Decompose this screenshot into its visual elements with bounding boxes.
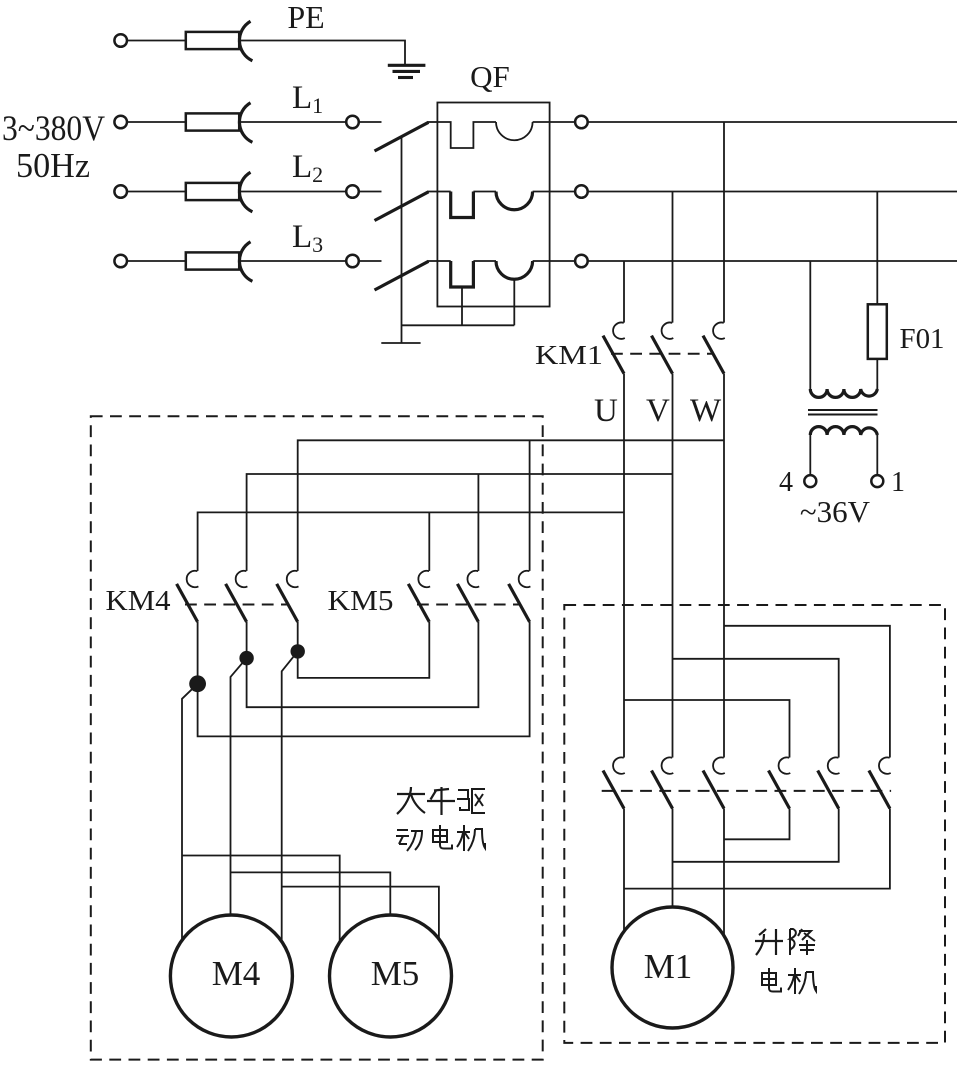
wire L3 to QF terminal <box>239 260 346 262</box>
circuit breaker QF box <box>437 103 549 307</box>
svg-text:1: 1 <box>891 467 905 498</box>
svg-text:3~380V: 3~380V <box>2 108 105 148</box>
label 大车驱 (travel drive) line1 <box>397 787 485 815</box>
QF pole2 thermal element <box>437 191 450 193</box>
wire PE terminal to fuse <box>127 40 186 42</box>
QF linkage vertical <box>401 136 403 343</box>
svg-text:M5: M5 <box>371 954 420 993</box>
dashed enclosure hoist box <box>564 605 945 1043</box>
svg-text:PE: PE <box>287 0 324 35</box>
contactor KM1 pole3 <box>703 322 725 373</box>
motor M5 <box>330 915 452 1037</box>
QF pole3 thermal element <box>437 260 450 262</box>
wire KM4 pole1 out to KM5 pole3 out <box>198 622 530 737</box>
connector arc PE <box>239 21 252 61</box>
wire M5 feed a <box>182 856 340 943</box>
wire KM4 pole2 out to KM5 pole2 out <box>247 622 479 707</box>
terminal QF out row3 <box>575 255 588 268</box>
svg-text:M4: M4 <box>212 954 261 993</box>
svg-text:QF: QF <box>470 59 510 94</box>
wire KM5 pole3 feed <box>529 440 531 571</box>
contactor KM1 pole1 <box>603 322 625 373</box>
wire L1 to fuse <box>127 121 186 123</box>
QF blade pole2 <box>375 192 429 221</box>
wire pole1 down to M1 <box>623 809 625 934</box>
wire motor feed b (from pole2 dot) <box>231 658 247 915</box>
svg-text:L3: L3 <box>292 219 323 257</box>
hoist contactor pole6 <box>869 757 891 808</box>
wire drop row2 to KM1 pole2 <box>672 192 674 323</box>
bus row2 <box>588 191 957 193</box>
svg-text:U: U <box>594 393 618 429</box>
svg-text:KM4: KM4 <box>106 585 172 617</box>
transformer T secondary winding <box>810 427 877 435</box>
wire QF to terminal row3 <box>550 260 576 262</box>
wire secondary right lead <box>876 435 878 475</box>
wire QF to terminal row2 <box>550 191 576 193</box>
terminal 1 <box>871 475 883 487</box>
KM1 linkage dashed <box>611 353 714 355</box>
svg-text:KM5: KM5 <box>328 585 394 617</box>
QF blade pole3 <box>375 261 429 290</box>
contactor KM5 pole1 <box>408 571 430 622</box>
ground earth symbol <box>388 65 426 77</box>
wire V vertical <box>672 374 674 758</box>
contactor KM1 pole2 <box>652 322 674 373</box>
contactor KM4 pole2 <box>226 571 248 622</box>
contactor KM5 pole2 <box>457 571 479 622</box>
wire drop row3 to KM1 pole1 <box>623 261 625 323</box>
QF operator T-bar <box>381 342 420 344</box>
wire QF to terminal row1 <box>550 121 576 123</box>
label 电机 (hoist) line2 <box>762 968 816 994</box>
bus row3 <box>588 260 957 262</box>
wire KM5 pole1 feed <box>428 512 430 571</box>
connector arc L1 <box>239 103 252 143</box>
wire motor feed c (from pole3 dot) <box>282 651 298 941</box>
wire U to hoist pole4 <box>624 700 790 758</box>
wire phase line A (W to KM4/KM5 row) <box>298 440 724 571</box>
terminal L1 QF-side <box>346 116 359 129</box>
wire phase line B (V to KM4/KM5 row) <box>247 474 673 571</box>
wire into QF pole2 <box>428 191 438 193</box>
connector arc L2 <box>239 172 252 212</box>
terminal L2 QF-side <box>346 185 359 198</box>
hoist contactor pole3 <box>703 757 725 808</box>
wire L2 to QF terminal <box>239 191 346 193</box>
wire M5 feed c <box>282 887 439 939</box>
wire L3 to fuse <box>127 260 186 262</box>
wire drop row2 to F01 <box>876 192 878 305</box>
junction dot KM4 pole1 <box>189 675 206 692</box>
motor M1 <box>612 907 733 1028</box>
terminal QF out row1 <box>575 116 588 129</box>
svg-text:L1: L1 <box>292 80 323 118</box>
wire W vertical <box>723 374 725 758</box>
hoist contactor pole5 <box>818 757 840 808</box>
wire L1 stub <box>359 121 382 123</box>
wire pole6 out to pole1 line <box>624 809 890 889</box>
wire L2 stub <box>359 191 382 193</box>
wire drop row1 to KM1 pole3 <box>723 122 725 323</box>
dashed enclosure M4/M5 drive box <box>91 416 543 1059</box>
wire V to hoist pole5 <box>673 659 839 758</box>
fuse FU-L1 <box>186 113 239 130</box>
motor M4 <box>170 915 292 1037</box>
hoist contactor pole4 <box>769 757 791 808</box>
QF trip link from pole3 notch <box>461 287 463 325</box>
wire L1 to QF terminal <box>239 121 346 123</box>
svg-text:L2: L2 <box>292 149 323 187</box>
svg-text:V: V <box>646 393 670 429</box>
wire into QF pole3 <box>428 260 438 262</box>
svg-text:W: W <box>690 393 722 429</box>
fuse FU-PE <box>186 32 239 49</box>
wire motor feed a (from pole1 dot) <box>182 684 198 941</box>
hoist contactor pole2 <box>652 757 674 808</box>
transformer core <box>808 410 878 415</box>
svg-text:50Hz: 50Hz <box>16 146 90 185</box>
wire L2 to fuse <box>127 191 186 193</box>
fuse FU-L3 <box>186 252 239 269</box>
terminal L3 input <box>114 255 127 268</box>
contactor KM5 pole3 <box>509 571 531 622</box>
QF pole1 thermal element <box>437 122 496 148</box>
fuse F01 <box>868 304 887 359</box>
wire F01 to transformer primary <box>876 359 878 389</box>
hoist contactor pole1 <box>603 757 625 808</box>
QF trip link from pole3 arc <box>513 279 515 325</box>
wire PE to ground corner <box>239 41 405 65</box>
connector arc L3 <box>239 242 252 281</box>
wire U vertical <box>623 374 625 758</box>
svg-text:F01: F01 <box>900 323 945 355</box>
wire drop row3 to transformer primary <box>809 261 811 389</box>
terminal 4 <box>804 475 816 487</box>
svg-text:M1: M1 <box>644 947 693 986</box>
junction dot KM4 pole3 <box>291 644 305 658</box>
QF blade pole1 <box>375 122 429 151</box>
wire pole2 down to M1 <box>672 809 674 908</box>
wire KM5 pole2 feed <box>477 474 479 571</box>
transformer T primary winding <box>810 389 877 397</box>
KM5 linkage dashed <box>417 604 520 606</box>
wire M5 feed b <box>231 872 391 915</box>
wire into QF pole1 <box>428 121 438 123</box>
label 动电机 (travel drive) line2 <box>396 825 485 851</box>
wire pole5 out to pole2 line <box>673 809 839 862</box>
svg-text:4: 4 <box>779 467 793 498</box>
wire secondary left lead <box>809 435 811 475</box>
terminal QF out row2 <box>575 185 588 198</box>
terminal L3 QF-side <box>346 255 359 268</box>
svg-text:KM1: KM1 <box>535 340 603 370</box>
hoist linkage dashed <box>602 790 891 792</box>
fuse FU-L2 <box>186 183 239 200</box>
wire pole4 out to pole3 line <box>724 809 790 840</box>
terminal L2 input <box>114 185 127 198</box>
contactor KM4 pole1 <box>177 571 199 622</box>
contactor KM4 pole3 <box>277 571 299 622</box>
bus row1 <box>588 121 957 123</box>
wire L3 stub <box>359 260 382 262</box>
wire phase line C (U to KM4/KM5 row) <box>198 512 624 571</box>
junction dot KM4 pole2 <box>239 651 253 665</box>
wire KM4 pole3 out to KM5 pole1 out <box>298 622 430 678</box>
KM4 linkage dashed <box>185 604 288 606</box>
terminal L1 input <box>114 116 127 129</box>
label 升降 (hoist) line1 <box>755 929 815 955</box>
terminal PE input <box>114 34 127 47</box>
wire W to hoist pole6 <box>724 626 890 758</box>
QF trip link horizontal <box>402 324 515 326</box>
wire pole3 down to M1 <box>723 809 725 938</box>
svg-text:~36V: ~36V <box>800 494 871 529</box>
